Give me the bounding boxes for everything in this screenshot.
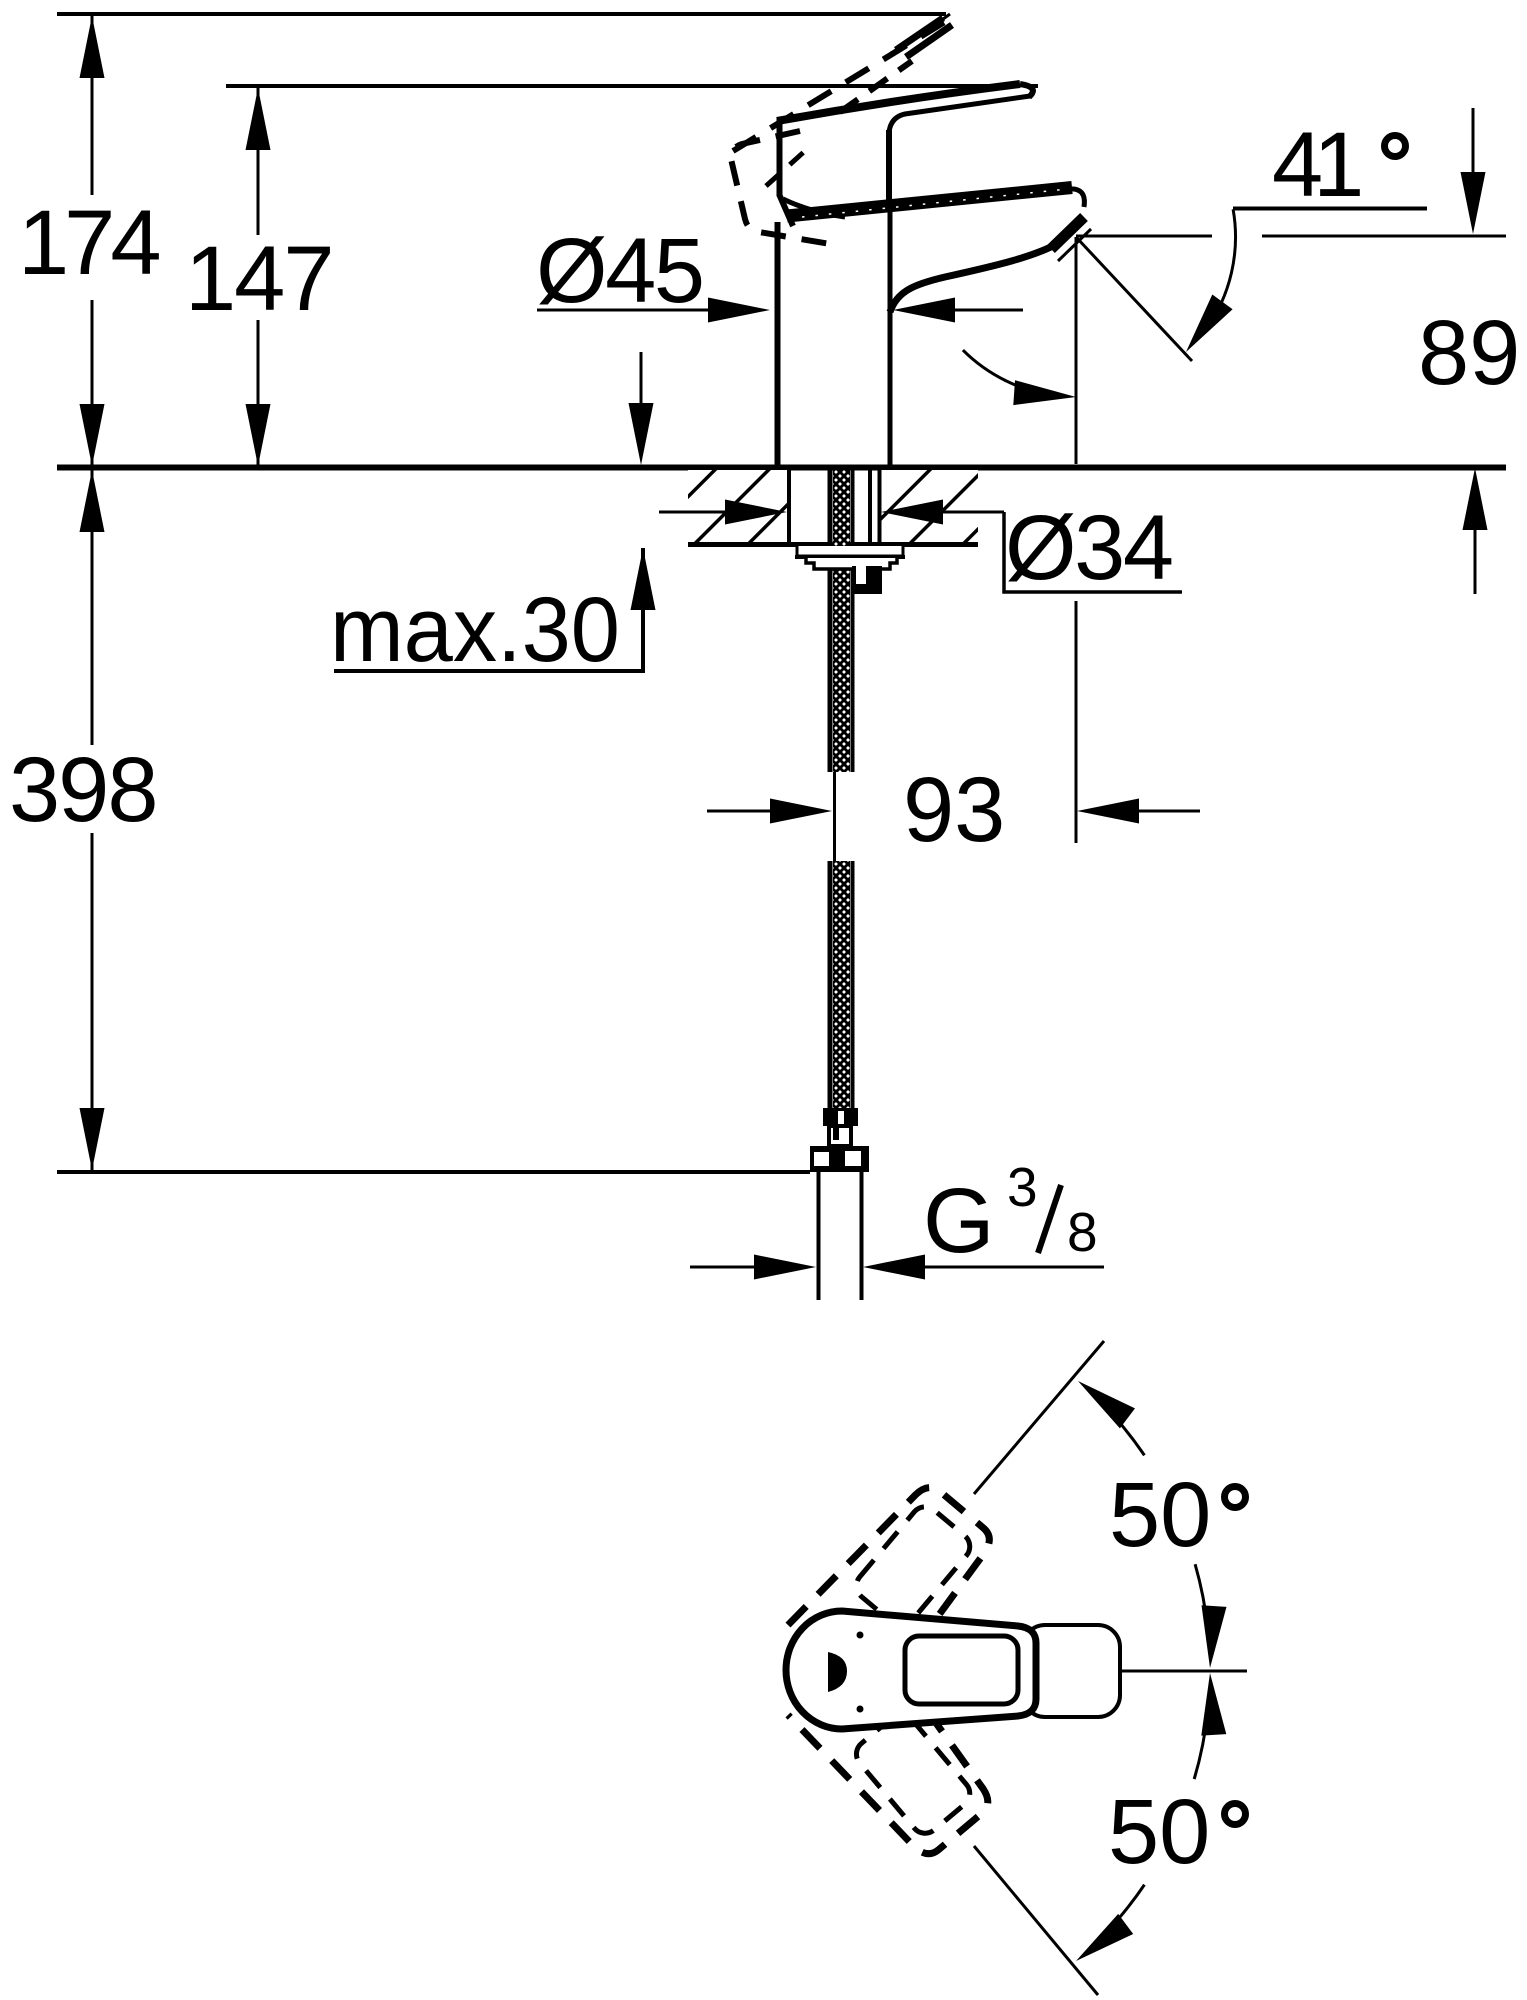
raised lever tip stroke 1 [896,18,943,50]
handle dot upper [857,1632,864,1639]
handle dot lower [857,1706,864,1713]
dim 93 shaft right [1139,810,1200,813]
handle cap mark [828,1652,847,1692]
svg-text:3: 3 [1007,1156,1038,1218]
stud locknut [852,566,882,594]
hose connector [829,1126,851,1146]
angle 50 top diagonal [974,1341,1104,1494]
handle centerline [1121,1670,1247,1673]
dim 89 shaft bottom [1474,530,1477,594]
shank left wall [787,470,791,545]
cover kink edge [779,194,793,226]
dim 174 line lower [91,300,94,466]
slab hatch right [881,470,978,543]
extension line top (174 level) [57,12,946,16]
raised lever tip stroke 2 [906,25,952,57]
dim 398 line upper [91,470,94,745]
mounting nut outline [806,558,897,569]
angle 50 arrow B [1202,1605,1227,1668]
angle 41 arc arrow [1013,380,1076,405]
deck surface line [57,465,1506,471]
body right edge [888,206,893,470]
slab hatch left [688,470,787,543]
hose wall right upper [851,470,855,772]
washer plate [797,546,903,556]
spout level line [1076,235,1212,238]
lever blade bottom edge [889,96,1030,132]
dim max30 leader [334,548,643,671]
dim Ø34 shaft right [940,511,1004,514]
dim 398 arrow bottom [80,1108,105,1170]
angle 50 arrow C [1201,1673,1226,1736]
extension line (147 level) [226,84,1038,88]
dim 398 line lower [91,833,94,1170]
dim max30 arrow lower [631,548,656,610]
dim 147 line lower [257,320,260,466]
spout top edge band [787,188,1072,217]
angle 50 arc C [1194,1710,1208,1779]
dim 93 shaft left [707,810,770,813]
handle extension piece [1023,1625,1120,1717]
spout level line right [1262,235,1506,238]
dim Ø45 arrow right [893,298,955,323]
svg-text:max.30: max.30 [330,579,620,681]
extension line vertical [1075,237,1078,464]
angle 50 arrow A [1078,1381,1135,1428]
angle 50 bottom diagonal [974,1846,1098,1995]
spout top highlight [802,189,1072,218]
supply pipe right wall [860,1172,864,1300]
dim 147 arrow top [246,88,271,150]
lever cover left edge [777,117,783,196]
raised lever tip thin [928,14,950,30]
dim Ø34 arrow right [881,500,943,525]
svg-text:398: 398 [9,739,157,841]
angle 41 underline [1233,207,1427,211]
dim Ø34 leader [1004,512,1182,592]
svg-text:50: 50 [1108,1781,1210,1883]
body left edge [775,222,781,470]
label G38 slash [1038,1185,1061,1253]
dim G38 shaft left [690,1266,755,1269]
svg-text:174: 174 [18,192,159,294]
raised lever blade dashed edges [733,20,948,151]
angle 41 leader arrow [1186,295,1233,353]
label 50 bottom degree [1225,1804,1246,1825]
hose braid upper [833,470,850,772]
angle 50 arrow D [1076,1914,1133,1961]
hose end fitting [823,1108,858,1126]
svg-text:Ø34: Ø34 [1005,497,1172,599]
angle 50 arc A [1100,1401,1145,1455]
dim Ø45 shaft left [537,309,712,312]
faucet body fill [776,83,1090,470]
washer plate bottom [795,555,905,559]
dim G38 arrow right [863,1255,925,1280]
aerator face thin line [1058,229,1091,261]
flow direction line [1076,237,1192,361]
svg-text:8: 8 [1067,1201,1098,1263]
handle top view dashed +50 [788,1640,1005,1868]
dim 174 arrow bottom [80,404,105,466]
svg-text:G: G [923,1170,995,1272]
handle top view dashed -50 [788,1472,1005,1700]
supply pipe left wall [817,1172,821,1300]
shank right wall [878,470,882,545]
svg-text:Ø45: Ø45 [536,220,703,322]
svg-text:147: 147 [185,228,333,330]
angle 50 arc B [1195,1564,1208,1630]
mounting stud wall [868,470,872,546]
dim G38 shaft right [925,1266,1104,1269]
spout tip hook [1068,189,1084,207]
slab bottom line [688,542,978,547]
dim 174 arrow top [80,16,105,78]
dim 89 arrow bottom [1463,468,1488,530]
dim Ø45 shaft right [950,309,1023,312]
dim G38 arrow left [754,1255,816,1280]
svg-text:93: 93 [903,759,1005,861]
extension line vertical lower [1075,601,1078,843]
lever tip cap [1020,84,1033,97]
lever blade top edge [777,84,1020,121]
dim 174 line upper [91,16,94,195]
dim Ø45 arrow left [708,298,770,323]
hose braid lower [833,861,850,1108]
dim max30 arrow upper shaft [640,352,643,408]
raised lever inner dash [766,150,806,186]
aerator face bar [1051,217,1084,249]
hose wall left lower [828,861,833,1108]
spout underside curve [890,241,1062,312]
handle top view solid [786,1611,1036,1729]
svg-text:50: 50 [1109,1464,1211,1566]
dim 398 arrow top [80,470,105,532]
dim Ø34 arrow left [725,500,787,525]
dim 93 arrow left [770,799,832,824]
dim 147 arrow bottom [246,404,271,466]
svg-text:41: 41 [1272,114,1360,216]
dim 89 arrow top [1461,172,1486,234]
hose wall left upper [828,470,833,772]
cover chin stroke [783,199,845,217]
angle 50 arc D [1102,1885,1144,1937]
bottom reference line [57,1170,810,1174]
lever neck right edge [886,130,892,206]
angle 41 arc lower [963,350,1057,396]
label 50 top degree [1225,1487,1246,1508]
handle inner opening [905,1636,1018,1704]
label 41 degree [1385,136,1406,157]
dim Ø34 shaft left [659,511,730,514]
dim max30 arrow upper [629,403,654,465]
dim 93 arrow right [1077,799,1139,824]
raised lever cover dashed outline [731,131,836,245]
hose wall right lower [851,861,855,1108]
dim 147 line upper [257,88,260,235]
hose centerline thin [833,772,836,861]
svg-text:89: 89 [1418,302,1520,404]
union nut [810,1146,869,1172]
dim 89 shaft top [1472,108,1475,175]
angle 41 leader arc [1205,209,1236,330]
